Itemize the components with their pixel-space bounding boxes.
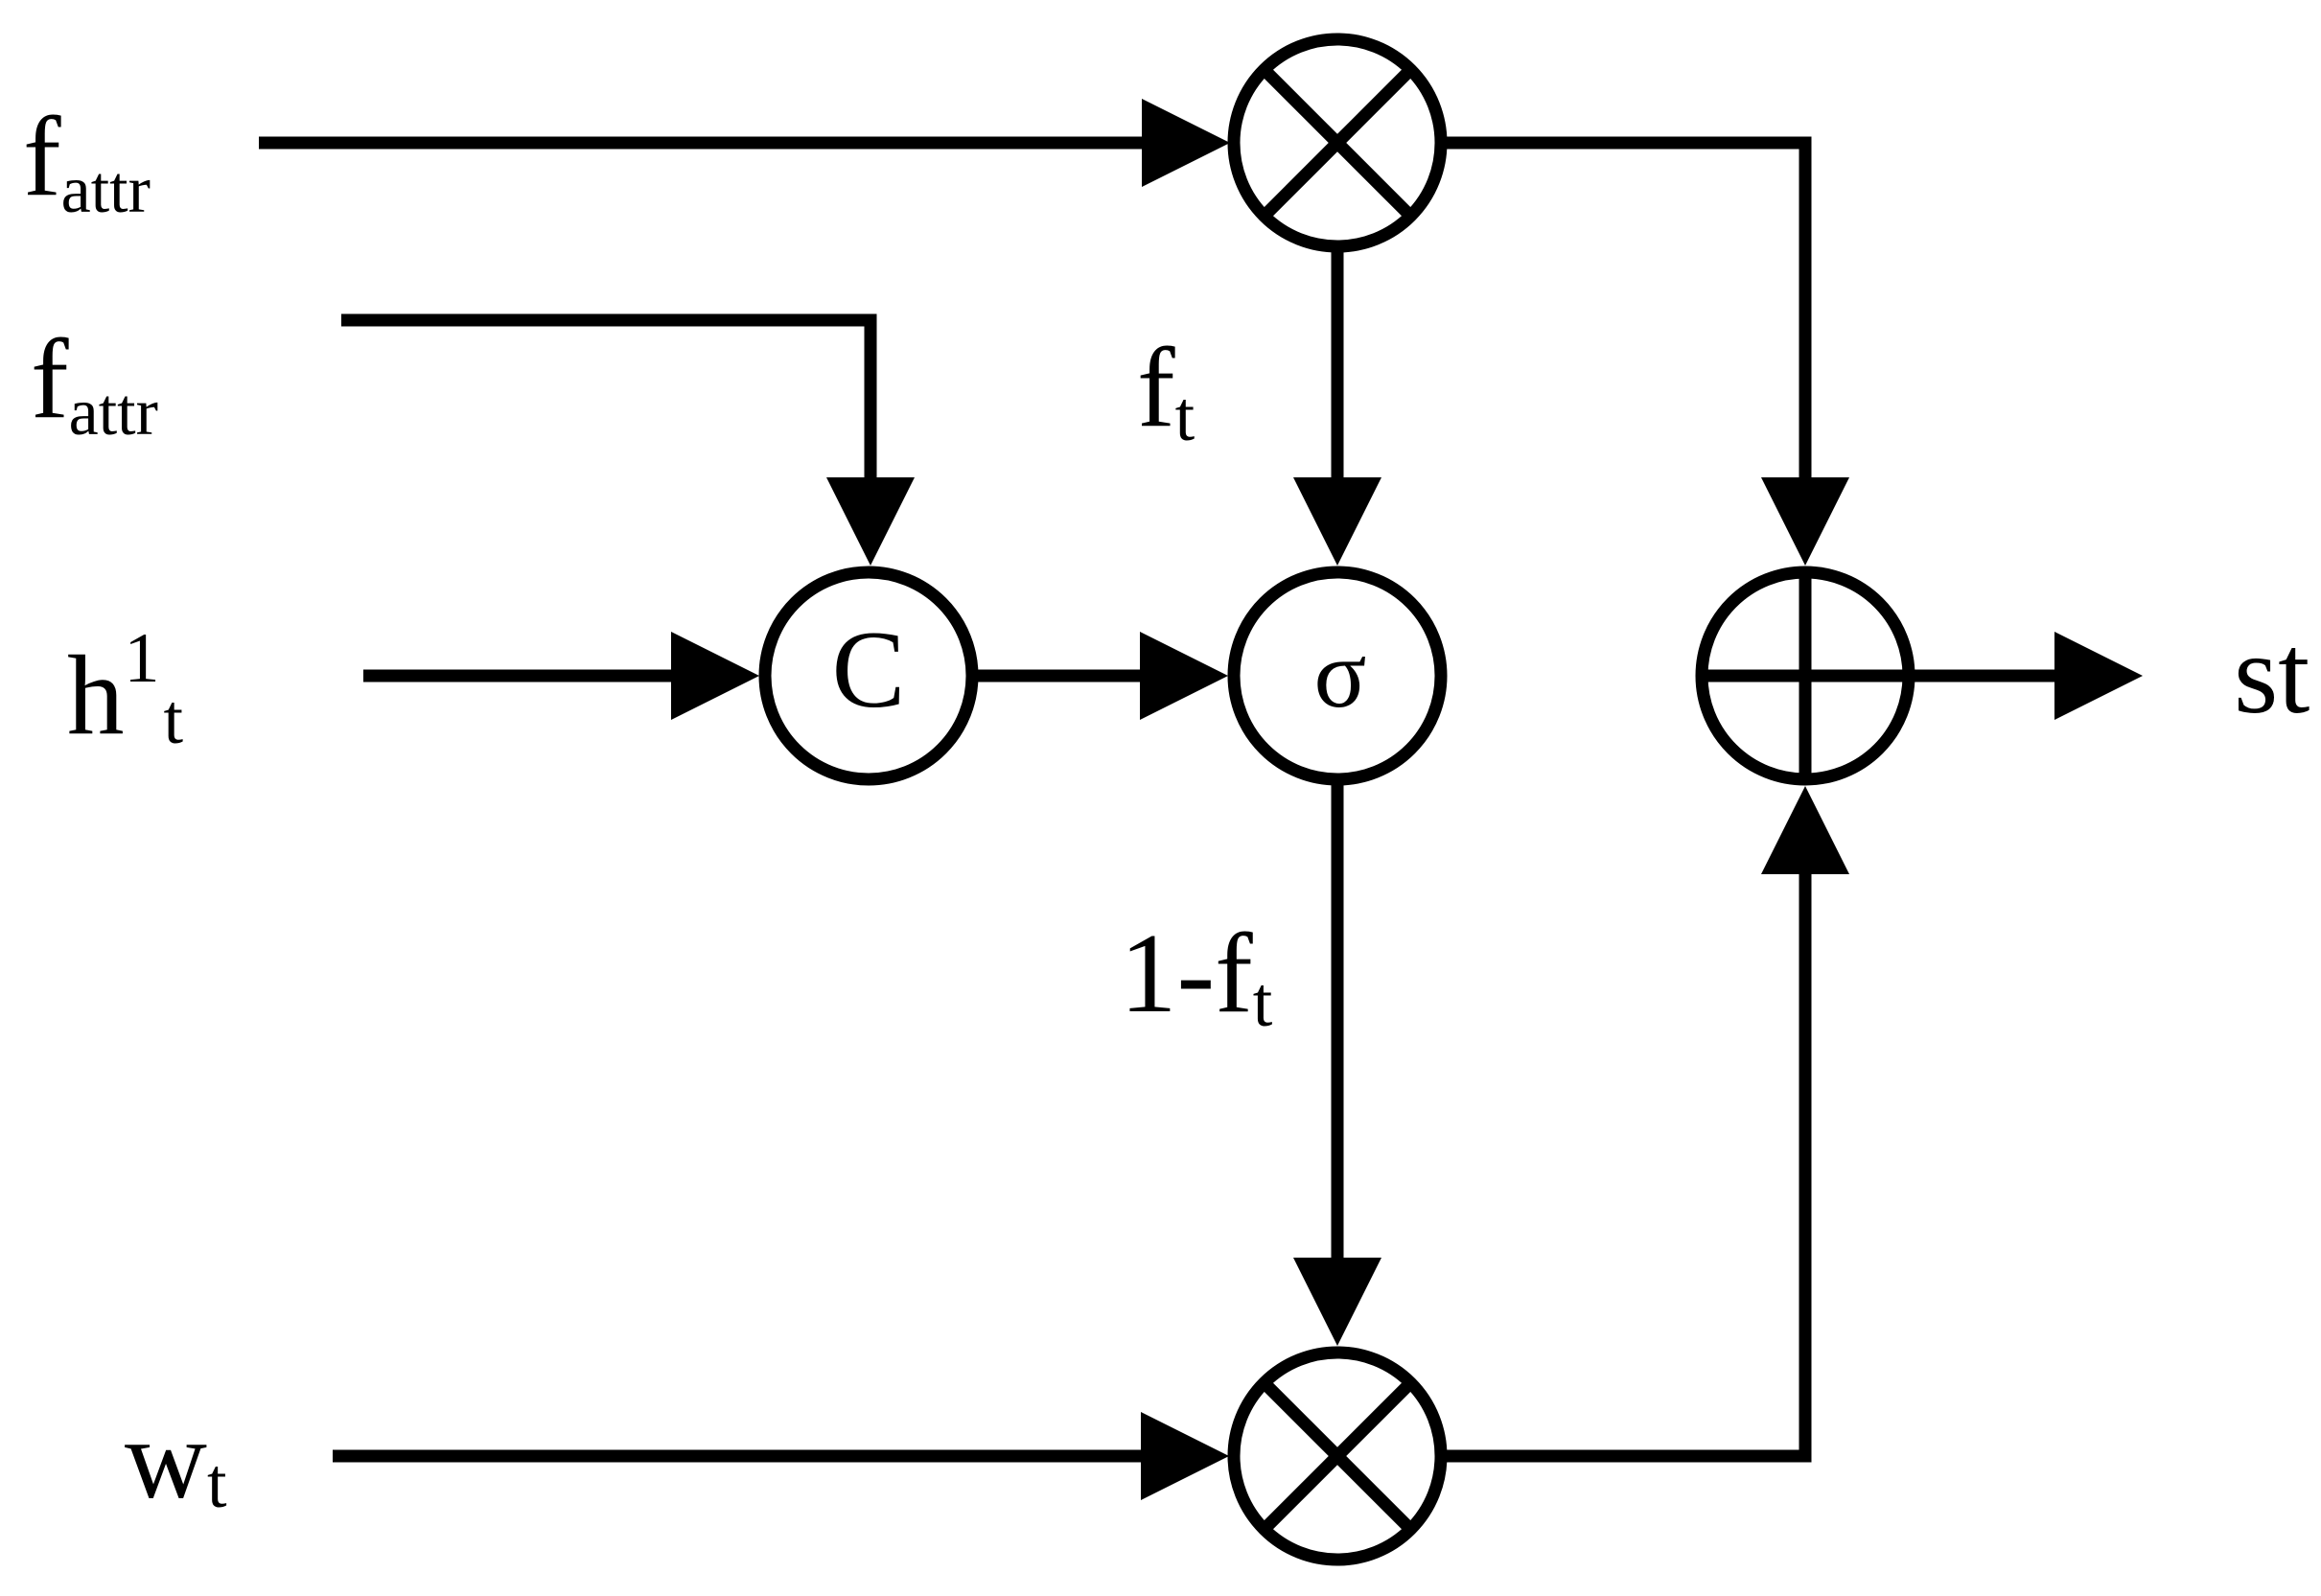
arrowhead of output st: [2054, 632, 2143, 720]
arrowhead into multiplier M2 top: [1293, 1258, 1381, 1346]
arrowhead into sigma left: [1140, 632, 1228, 720]
multiplier M1 X diagonal 1: [1263, 68, 1412, 218]
svg-text:σ: σ: [1314, 620, 1367, 729]
multiplier M1 X diagonal 2: [1263, 68, 1412, 218]
multiplier M2 circle (bottom): [1234, 1353, 1441, 1560]
wire f_attr to multiplier M1: [259, 137, 1148, 150]
svg-text:C: C: [832, 609, 906, 730]
multiplier M1 circle (top): [1234, 39, 1441, 246]
wire f_attr to concat C (right then down): [341, 320, 870, 483]
arrowhead into adder bottom (pointing up): [1761, 786, 1849, 874]
svg-text:st: st: [2234, 611, 2309, 737]
arrowhead into adder top: [1761, 477, 1849, 566]
arrowhead into multiplier M2 left: [1141, 1412, 1229, 1500]
adder cross vertical: [1799, 571, 1812, 780]
concat node C circle: [765, 572, 972, 779]
adder cross horizontal merged with output wire: [1703, 670, 2057, 682]
sigma gate circle: [1234, 572, 1441, 779]
wire M1 to sigma (f_t branch): [1332, 252, 1344, 483]
arrowhead into sigma top: [1293, 477, 1381, 566]
wire M2 to adder (right then up): [1447, 870, 1805, 1456]
svg-text:1-ft: 1-ft: [1120, 910, 1273, 1042]
arrowhead into concat C left: [671, 632, 759, 720]
adder circle: [1702, 572, 1909, 779]
wire w_t to multiplier M2: [333, 1450, 1146, 1463]
multiplier M2 X diagonal 2: [1263, 1381, 1412, 1531]
wire sigma to multiplier M2 (1-f_t branch): [1332, 785, 1344, 1258]
wire C to sigma: [978, 670, 1146, 682]
arrowhead into multiplier M1 left: [1142, 99, 1230, 187]
wire M1 to adder (right then down): [1446, 143, 1805, 483]
arrowhead into concat C top: [826, 477, 915, 566]
multiplier M2 X diagonal 1: [1263, 1381, 1412, 1531]
wire h1t to concat C: [363, 670, 677, 682]
